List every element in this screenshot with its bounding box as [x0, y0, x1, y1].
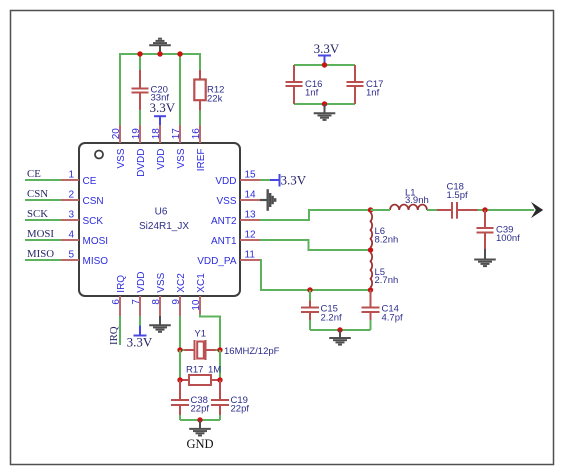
resistor R12 22k: [194, 70, 224, 111]
wire pin7: [139, 316, 141, 326]
svg-text:ANT2: ANT2: [211, 216, 237, 227]
wire pin17 to bus: [179, 54, 181, 125]
svg-text:22pf: 22pf: [191, 404, 210, 415]
wire net MISO: [25, 259, 61, 261]
svg-text:CE: CE: [27, 168, 41, 180]
junction bus-17: [177, 51, 182, 56]
pin 13 ANT2 right: [211, 210, 260, 227]
svg-text:CSN: CSN: [27, 188, 48, 200]
svg-text:2.2nf: 2.2nf: [321, 312, 342, 323]
wire net MOSI: [25, 239, 61, 241]
svg-text:R17: R17: [186, 365, 203, 376]
svg-text:VSS: VSS: [156, 272, 167, 292]
junction ANT1 node: [368, 247, 373, 252]
wire net CE: [25, 179, 61, 181]
svg-text:MOSI: MOSI: [83, 236, 109, 247]
svg-text:CE: CE: [83, 176, 97, 187]
ground C15 C14: [329, 330, 351, 345]
wire IRQ: [119, 316, 121, 345]
wire VDD_PA rail: [260, 260, 371, 290]
junction gnd rail: [322, 101, 327, 106]
pin 2 CSN: [61, 190, 104, 207]
svg-text:MISO: MISO: [27, 248, 54, 260]
pin 5 MISO: [61, 250, 108, 267]
pin 3 SCK: [61, 210, 103, 227]
ground crystal: [189, 420, 211, 436]
svg-text:4.7pf: 4.7pf: [382, 312, 403, 323]
svg-text:22k: 22k: [207, 93, 223, 104]
capacitor C15 2.2nf: [301, 290, 342, 330]
pin 19 DVDD top: [131, 125, 147, 177]
svg-text:IRQ: IRQ: [108, 326, 120, 345]
svg-text:XC1: XC1: [196, 273, 207, 293]
inductor L1 3.9nh: [390, 188, 429, 210]
svg-text:IRQ: IRQ: [116, 275, 127, 293]
svg-text:17: 17: [171, 128, 182, 140]
junction Y1 right: [217, 347, 222, 352]
pin 14 VSS right: [216, 190, 260, 207]
svg-text:7: 7: [131, 299, 142, 305]
svg-text:DVDD: DVDD: [136, 149, 147, 177]
wire net SCK: [25, 219, 61, 221]
svg-text:100nf: 100nf: [496, 233, 520, 244]
svg-text:8: 8: [151, 299, 162, 305]
junction PA rail C15: [307, 287, 312, 292]
power 3.3V at pin 15: [270, 173, 307, 188]
pin 18 VDD top: [151, 125, 167, 170]
svg-text:4: 4: [68, 230, 74, 241]
ground C39: [474, 249, 496, 266]
svg-text:VSS: VSS: [176, 148, 187, 168]
svg-text:VDD: VDD: [156, 149, 167, 170]
svg-text:18: 18: [151, 128, 162, 140]
svg-text:ANT1: ANT1: [211, 236, 237, 247]
svg-text:SCK: SCK: [83, 216, 104, 227]
antenna arrow: [531, 202, 543, 218]
wire Y1 to R17 right: [219, 350, 221, 380]
svg-text:6: 6: [111, 299, 122, 305]
pin 15 VDD right: [215, 170, 260, 187]
wire pin19 segments: [139, 54, 141, 70]
wire C18 to antenna: [478, 209, 535, 211]
svg-text:12: 12: [245, 230, 257, 241]
svg-text:SCK: SCK: [27, 208, 48, 220]
capacitor C16 1nf: [286, 65, 323, 104]
svg-text:GND: GND: [186, 437, 213, 451]
ground top center: [149, 39, 171, 54]
power 3.3V at pin 7: [127, 326, 153, 350]
svg-text:5: 5: [68, 250, 74, 261]
svg-text:3.3V: 3.3V: [150, 100, 176, 115]
junction 3.3V rail: [322, 62, 327, 67]
svg-text:22pf: 22pf: [231, 404, 250, 415]
wire ANT2: [260, 210, 371, 220]
svg-text:13: 13: [245, 210, 257, 221]
ground at pin 14: [260, 189, 275, 211]
pin 9 XC2 bottom: [171, 273, 187, 316]
pin 8 VSS bottom: [151, 272, 167, 316]
svg-text:3: 3: [68, 210, 74, 221]
ground at pin 8: [149, 316, 171, 332]
svg-text:14: 14: [245, 190, 257, 201]
pin 20 VSS top: [111, 125, 127, 169]
wire XC2: [179, 316, 181, 350]
svg-text:16MHZ/12pF: 16MHZ/12pF: [224, 346, 280, 357]
junction bus-18gnd: [157, 51, 162, 56]
wire L1 to C18: [371, 209, 391, 211]
inductor L6 8.2nh: [371, 213, 399, 248]
junction C39 node: [482, 207, 487, 212]
svg-text:9: 9: [171, 299, 182, 305]
svg-text:IREF: IREF: [196, 149, 207, 172]
junction gnd rail crystal: [197, 417, 202, 422]
svg-text:16: 16: [191, 128, 202, 140]
svg-text:VDD: VDD: [136, 272, 147, 293]
power 3.3V top right: [314, 41, 340, 65]
svg-text:VDD_PA: VDD_PA: [197, 256, 237, 267]
wire top ground bus: [120, 54, 200, 125]
svg-text:1.5pf: 1.5pf: [447, 190, 468, 201]
pin 12 ANT1 right: [211, 230, 260, 247]
svg-text:1: 1: [68, 170, 74, 181]
capacitor C39 100nf: [477, 210, 521, 252]
wire net CSN: [25, 199, 61, 201]
pin 17 VSS top: [171, 125, 187, 169]
wire C15 C14 gnd rail: [310, 329, 371, 331]
svg-text:1M: 1M: [208, 365, 221, 376]
pin 10 XC1 bottom: [191, 273, 207, 314]
junction gnd rail: [337, 327, 342, 332]
svg-text:3.3V: 3.3V: [314, 41, 340, 56]
wire crystal gnd rail: [180, 419, 220, 421]
ground top right block: [314, 104, 336, 120]
pin 6 IRQ bottom: [111, 275, 127, 316]
svg-text:Si24R1_JX: Si24R1_JX: [139, 221, 189, 232]
wire Y1 to R17 left: [179, 350, 181, 380]
wire bottom rail C16 C17: [294, 103, 355, 105]
capacitor C17 1nf: [347, 65, 384, 104]
svg-text:VSS: VSS: [116, 148, 127, 168]
svg-text:Y1: Y1: [194, 329, 206, 340]
inductor L5 2.7nh: [371, 253, 399, 288]
svg-text:2: 2: [68, 190, 74, 201]
svg-text:19: 19: [131, 128, 142, 140]
capacitor C14 4.7pf: [362, 290, 403, 330]
svg-text:3.3V: 3.3V: [281, 173, 307, 188]
junction Y1 left: [177, 347, 182, 352]
junction R17 left: [177, 377, 182, 382]
crystal Y1 16MHZ/12pF: [180, 329, 280, 361]
svg-text:20: 20: [111, 128, 122, 140]
svg-text:10: 10: [191, 299, 202, 311]
resistor R17 1M: [180, 365, 221, 386]
power 3.3V at pin 18: [150, 100, 176, 125]
junction R17 right: [217, 377, 222, 382]
svg-text:U6: U6: [155, 206, 168, 217]
wire pin15: [260, 179, 270, 181]
svg-text:MISO: MISO: [83, 256, 109, 267]
svg-text:VSS: VSS: [216, 196, 236, 207]
svg-text:3.9nh: 3.9nh: [405, 195, 429, 206]
svg-text:11: 11: [245, 250, 256, 261]
svg-text:1nf: 1nf: [366, 87, 380, 98]
pin 16 IREF top: [191, 125, 207, 171]
capacitor C38 22pf: [171, 380, 209, 420]
wire pin16 to R12: [199, 111, 201, 126]
svg-text:1nf: 1nf: [305, 87, 319, 98]
svg-text:VDD: VDD: [215, 176, 236, 187]
pin 4 MOSI: [61, 230, 108, 247]
svg-text:CSN: CSN: [83, 196, 104, 207]
svg-text:XC2: XC2: [176, 273, 187, 293]
pin 1 CE: [61, 170, 97, 187]
svg-text:MOSI: MOSI: [27, 228, 54, 240]
wire ANT1: [260, 240, 371, 250]
svg-text:3.3V: 3.3V: [127, 335, 153, 350]
IC U6 Si24R1_JX body: [79, 143, 240, 296]
capacitor C18 1.5pf: [437, 181, 478, 218]
svg-text:15: 15: [245, 170, 257, 181]
junction bus-19: [137, 51, 142, 56]
pin 7 VDD bottom: [131, 272, 147, 316]
capacitor C19 22pf: [211, 380, 249, 420]
svg-text:2.7nh: 2.7nh: [375, 275, 399, 286]
junction ANT2 node: [368, 207, 373, 212]
wire top rail C16 C17: [294, 64, 355, 66]
capacitor C20 33nf: [132, 70, 170, 110]
pin 11 VDD_PA right: [197, 250, 260, 267]
svg-text:8.2nh: 8.2nh: [375, 234, 399, 245]
junction PA rail L5: [368, 287, 373, 292]
wire XC1: [200, 314, 220, 350]
